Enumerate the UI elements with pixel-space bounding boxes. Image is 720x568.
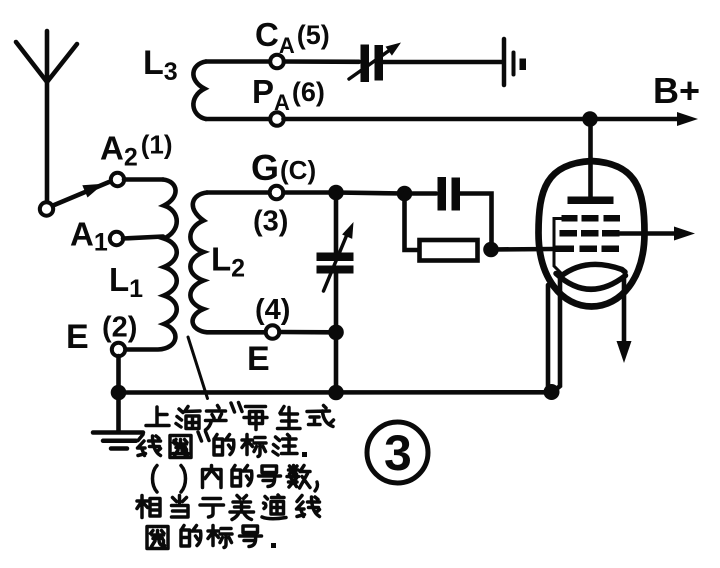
svg-text:E: E [66,318,89,356]
svg-text:E: E [247,340,270,378]
wire B+ line [284,117,684,122]
tube grid row 1 [562,215,621,222]
char 于 [200,499,224,518]
terminal E (2) [112,343,125,356]
junction dot resistor right [483,242,499,258]
char 标 [242,435,266,457]
varcap CA arrow [349,43,401,80]
char 美 [230,496,254,520]
junction dot grid-cap node [397,186,413,202]
CJK annotation: 上海产"再生式 线圈"的标注. ( )内的号数, 相当于美通线 圈的标号. [137,403,334,549]
wire 4 to node [280,330,331,335]
wire E2 down [116,356,121,393]
wire down to resistor [405,194,420,251]
wire grid lead to tube [491,247,553,252]
terminal CA (5) [270,55,284,69]
wire CA to varcap [284,59,359,64]
svg-text:L2: L2 [211,241,245,283]
variable capacitor CA plates [361,45,384,83]
junction dot bus mid [328,385,344,401]
comma [315,482,317,491]
char 数 [287,466,310,489]
svg-text:L1: L1 [109,261,143,303]
char 号 [240,526,262,547]
char 线 [138,435,161,456]
switch S1 blade [53,182,109,206]
svg-text:CA(5): CA(5) [255,16,330,58]
char 标 [208,526,232,548]
tube plate bar [568,197,614,205]
antenna [16,31,77,203]
wire plate lead [588,119,593,197]
period [271,543,276,548]
wire cap to right [460,194,492,250]
resistor grid leak [420,240,478,261]
coil L3 [193,62,206,120]
char 的 [214,435,234,456]
paren open [153,466,158,493]
char 当 [172,496,189,518]
wire varcap to battery [383,60,502,65]
wire to grid capacitor [405,191,437,196]
char 的 [232,466,252,487]
terminal E (4) [266,325,280,339]
switch S1 pivot [40,202,53,215]
svg-text:A1: A1 [70,216,108,257]
char 注 [273,435,297,456]
tube grid row 3 [553,246,620,253]
svg-text:A2(1): A2(1) [100,130,173,172]
tube V1 envelope [539,161,645,307]
callout line [188,337,208,399]
wire L3 bottom to PA [206,117,271,122]
wire screen output [619,231,680,236]
terminal G (C) [270,186,284,200]
char 的 [181,526,201,547]
wire A2 to L1 [124,177,163,182]
quote mark [231,403,242,413]
junction dot bottom-left [111,385,127,401]
tube cathode [561,264,626,276]
wire tuning branch upper [334,193,339,253]
coil L1 [126,180,177,350]
svg-text:G(C): G(C) [251,147,316,188]
junction dot bus right [544,384,560,400]
coil L2 [190,193,266,333]
char 号 [259,466,281,487]
char 海 [176,407,200,429]
quote mark [198,432,209,442]
char 再 [244,407,267,430]
wire L2 top to G [207,190,269,195]
char 上 [146,407,169,426]
char 圈 [170,436,191,458]
paren close [181,466,186,493]
figure circle 3 [367,422,428,483]
svg-text:(4): (4) [255,294,290,326]
variable capacitor tuning plates [317,253,354,274]
wire G to node [284,190,337,195]
tube filament [556,274,626,290]
junction dot B+ [582,111,598,127]
svg-text:(2): (2) [102,312,137,344]
varcap tuning arrow [324,222,354,291]
wire cathode lead [554,277,560,391]
junction dot node 4 [328,325,344,341]
char 线 [297,496,320,517]
char 产 [206,406,227,431]
terminal A1 [110,232,123,245]
period [302,452,307,457]
wire tuning branch lower [334,274,339,333]
char 内 [203,466,222,488]
wire filament lead right [617,278,632,363]
ground [93,393,143,449]
terminal PA (6) [270,112,284,126]
wire node4 down [334,332,339,392]
svg-text:PA(6): PA(6) [252,73,325,115]
char 通 [262,495,286,519]
junction dot tuning node [328,185,344,201]
grid-cathode link [554,219,564,276]
svg-text:3: 3 [384,425,412,481]
wire node to grid-cap node [336,193,405,194]
char 生 [278,407,301,429]
tube grid row 2 [560,230,620,237]
char 相 [137,496,160,518]
svg-text:B+: B+ [653,70,700,111]
svg-text:(3): (3) [253,206,288,238]
output arrowhead [674,227,695,241]
wire L3 top [206,59,270,64]
char 式 [307,406,334,427]
grid capacitor plates [438,177,461,211]
B+ arrowhead [677,112,698,126]
terminal A2 (1) [111,173,124,186]
wire A1 tap [123,237,163,239]
wire bottom bus [119,390,552,395]
wire filament lead left [546,285,551,389]
char 圈 [147,527,168,549]
battery cell [504,39,526,85]
svg-text:L3: L3 [143,44,178,86]
